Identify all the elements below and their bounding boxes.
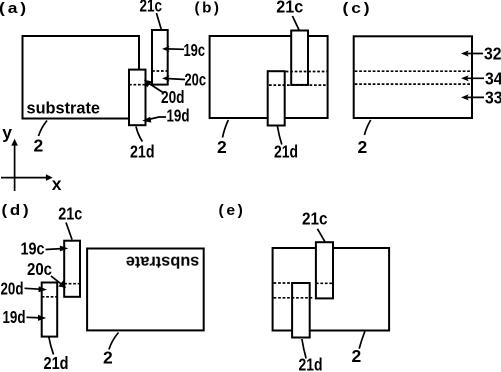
svg-text:2: 2 xyxy=(352,346,362,366)
svg-text:substrate: substrate xyxy=(126,253,200,271)
svg-text:21d: 21d xyxy=(299,355,323,372)
svg-text:21c: 21c xyxy=(276,0,303,17)
svg-text:(d): (d) xyxy=(2,202,32,219)
svg-text:2: 2 xyxy=(34,136,44,156)
svg-text:2: 2 xyxy=(217,137,227,157)
svg-text:20d: 20d xyxy=(1,279,24,299)
svg-text:2: 2 xyxy=(103,348,113,368)
svg-text:20c: 20c xyxy=(185,70,207,90)
svg-text:21c: 21c xyxy=(140,0,163,16)
svg-text:(e): (e) xyxy=(219,202,246,219)
svg-text:33: 33 xyxy=(485,88,501,108)
svg-text:21d: 21d xyxy=(44,353,69,372)
svg-text:y: y xyxy=(2,122,12,142)
svg-text:20d: 20d xyxy=(161,87,185,107)
svg-text:19d: 19d xyxy=(3,307,26,327)
svg-text:20c: 20c xyxy=(27,259,52,279)
svg-text:32: 32 xyxy=(484,44,501,64)
svg-text:x: x xyxy=(52,174,62,194)
svg-text:(b): (b) xyxy=(195,0,222,17)
svg-text:34: 34 xyxy=(485,69,501,89)
svg-text:19c: 19c xyxy=(184,40,206,60)
svg-text:21d: 21d xyxy=(274,142,298,162)
svg-text:2: 2 xyxy=(358,137,368,157)
svg-text:19c: 19c xyxy=(21,239,45,259)
svg-text:21d: 21d xyxy=(130,142,155,162)
svg-text:(a): (a) xyxy=(0,0,29,17)
svg-text:19d: 19d xyxy=(167,106,190,126)
svg-text:21c: 21c xyxy=(58,204,82,224)
svg-text:substrate: substrate xyxy=(27,100,101,118)
svg-text:21c: 21c xyxy=(302,209,328,229)
svg-text:(c): (c) xyxy=(343,0,373,17)
